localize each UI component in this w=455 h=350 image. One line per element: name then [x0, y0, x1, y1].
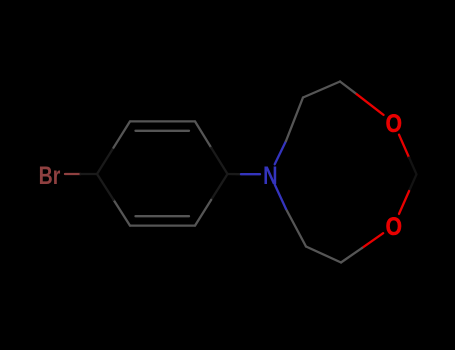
bond Cb-O1 red half [357, 94, 384, 115]
bond Br-C1 bromine half [65, 173, 81, 175]
benzene edge C4-C5 dark half [211, 174, 227, 200]
bond Cc-Cd [306, 247, 341, 263]
benzene edge C4-C5 gray half [195, 200, 211, 226]
benzene edge C1-C2 dark half [97, 148, 114, 174]
svg-text:Br: Br [39, 161, 61, 189]
benzene edge C1-C2 gray half [114, 121, 131, 147]
benzene edge C6-C1 gray half [114, 200, 131, 226]
bond O1-Cacetal dark half [409, 158, 416, 175]
svg-text:N: N [263, 162, 277, 190]
bond Cd-N gray half [286, 209, 306, 247]
bond Br-C1 carbon half [81, 173, 98, 175]
svg-text:O: O [386, 109, 402, 137]
benzene edge C3-C4 dark half [211, 148, 227, 174]
benzene edge C3-C4 gray half [195, 121, 211, 147]
benzene double bond inner top [136, 130, 190, 132]
bond O1-Cacetal red half [399, 135, 409, 158]
bond O2-Cc gray half [341, 248, 362, 263]
bond O2-Cc red half [362, 233, 383, 248]
svg-text:O: O [386, 212, 402, 240]
bond N-Ca blue half [275, 141, 286, 164]
benzene edge C6-C1 dark half [97, 174, 114, 200]
bond C4-N dark half [228, 173, 242, 175]
bond Cb-O1 gray half [340, 82, 357, 95]
bond Cacetal-O2 dark half [409, 174, 416, 191]
bond C4-N blue half [241, 173, 260, 175]
benzene bottom edge C5-C6 [130, 224, 195, 226]
benzene top edge C2-C3 [130, 120, 195, 122]
bond Cd-N blue half [275, 185, 286, 210]
benzene double bond inner bottom [136, 215, 190, 217]
bond Ca-Cb [303, 82, 340, 98]
bond N-Ca gray half [286, 98, 303, 142]
bond Cacetal-O2 red half [399, 191, 409, 214]
